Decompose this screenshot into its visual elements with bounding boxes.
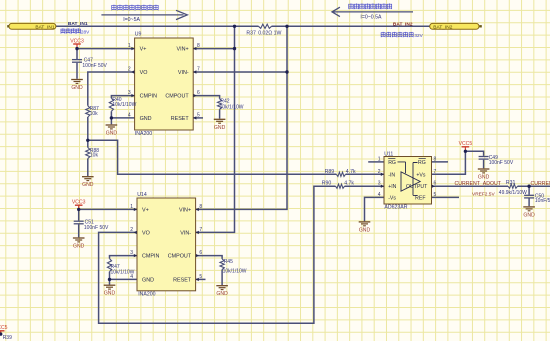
svg-text:VCC3: VCC3 [70, 38, 84, 44]
svg-text:GND: GND [214, 125, 226, 131]
svg-text:BAT_IN2: BAT_IN2 [433, 24, 452, 30]
svg-text:VO: VO [140, 70, 148, 76]
svg-text:-Vs: -Vs [388, 195, 396, 201]
svg-text:CURRENT_ADOUT: CURRENT_ADOUT [455, 181, 502, 187]
svg-text:R37: R37 [246, 30, 256, 36]
svg-text:OUTPUT: OUTPUT [406, 184, 428, 190]
svg-text:10k/1/10W: 10k/1/10W [111, 270, 135, 276]
svg-text:R89: R89 [325, 169, 335, 175]
svg-text:3: 3 [128, 90, 131, 96]
svg-text:RG: RG [418, 160, 426, 166]
svg-text:10k/1/10W: 10k/1/10W [220, 105, 244, 111]
svg-text:GND: GND [73, 244, 85, 250]
svg-text:INA200: INA200 [138, 291, 155, 297]
svg-text:2: 2 [128, 67, 131, 73]
svg-text:CURRENT: CURRENT [531, 181, 550, 187]
svg-text:4.7k: 4.7k [346, 169, 356, 175]
svg-text:7: 7 [434, 169, 437, 175]
svg-text:10nF/50V: 10nF/50V [535, 198, 550, 204]
svg-text:U11: U11 [384, 152, 393, 158]
svg-text:7: 7 [199, 227, 202, 233]
svg-text:VCC5: VCC5 [0, 325, 8, 331]
svg-text:3: 3 [378, 181, 381, 187]
svg-text:-IN: -IN [388, 172, 395, 178]
svg-text:8: 8 [434, 156, 437, 162]
svg-text:VO: VO [142, 230, 150, 236]
svg-text:10k: 10k [90, 153, 99, 159]
svg-text:GND: GND [523, 212, 535, 218]
svg-text:VIN+: VIN+ [177, 47, 189, 53]
svg-text:CMPOUT: CMPOUT [165, 94, 189, 100]
svg-text:5: 5 [197, 113, 200, 119]
svg-text:7: 7 [197, 67, 200, 73]
svg-text:RESET: RESET [171, 116, 190, 122]
svg-text:INA200: INA200 [135, 131, 152, 137]
svg-text:CMPIN: CMPIN [142, 254, 159, 260]
svg-text:28V: 28V [81, 29, 90, 34]
svg-text:R90: R90 [322, 180, 332, 186]
svg-text:GND: GND [71, 85, 83, 91]
svg-text:R39: R39 [3, 335, 12, 341]
svg-text:I=0~0.5A: I=0~0.5A [360, 15, 382, 21]
svg-text:BAT_IN1: BAT_IN1 [68, 21, 88, 27]
svg-text:CMPIN: CMPIN [140, 94, 157, 100]
svg-text:GND: GND [82, 182, 94, 188]
svg-text:GND: GND [216, 291, 228, 297]
svg-text:V+: V+ [140, 47, 147, 53]
svg-text:4: 4 [128, 113, 131, 119]
svg-text:VIN-: VIN- [180, 230, 191, 236]
svg-text:8: 8 [199, 204, 202, 210]
svg-text:I=0~5A: I=0~5A [123, 17, 140, 23]
svg-text:5: 5 [199, 274, 202, 280]
svg-text:1: 1 [128, 43, 131, 49]
svg-text:10k: 10k [90, 111, 99, 117]
svg-text:GND: GND [140, 116, 152, 122]
svg-text:RESET: RESET [173, 277, 192, 283]
svg-text:+IN: +IN [388, 184, 396, 190]
svg-text:U9: U9 [135, 32, 142, 38]
svg-text:2: 2 [130, 227, 133, 233]
svg-text:4: 4 [378, 192, 381, 198]
svg-text:CMPOUT: CMPOUT [168, 254, 192, 260]
svg-text:4.7k: 4.7k [344, 180, 354, 186]
svg-text:2: 2 [378, 169, 381, 175]
svg-text:0.02Ω 1W: 0.02Ω 1W [258, 30, 281, 36]
svg-text:U14: U14 [137, 192, 147, 198]
svg-text:BAT_IN1: BAT_IN1 [35, 24, 54, 30]
svg-text:5: 5 [434, 192, 437, 198]
svg-text:RG: RG [388, 160, 396, 166]
svg-text:100nF 50V: 100nF 50V [84, 225, 109, 231]
svg-text:V+: V+ [142, 207, 149, 213]
svg-text:100nF 50V: 100nF 50V [82, 63, 107, 69]
svg-text:VIN+: VIN+ [179, 207, 191, 213]
svg-text:GND: GND [106, 131, 118, 137]
svg-text:R31: R31 [506, 180, 516, 186]
svg-text:AD623AR: AD623AR [384, 204, 407, 210]
svg-text:VCC5: VCC5 [459, 141, 473, 147]
svg-text:100nF 50V: 100nF 50V [489, 160, 514, 166]
svg-text:10k/1/10W: 10k/1/10W [112, 102, 136, 108]
svg-text:8: 8 [197, 43, 200, 49]
svg-text:10k/1/10W: 10k/1/10W [223, 268, 247, 274]
svg-text:GND: GND [142, 277, 154, 283]
svg-text:VREF2.5V: VREF2.5V [472, 192, 495, 198]
svg-text:+Vs: +Vs [416, 172, 425, 178]
svg-text:R45: R45 [224, 259, 233, 265]
svg-text:GND: GND [478, 175, 490, 181]
svg-text:VIN-: VIN- [178, 70, 189, 76]
svg-text:32V: 32V [414, 33, 423, 38]
svg-text:6: 6 [197, 90, 200, 96]
svg-text:GND: GND [359, 227, 371, 233]
svg-text:3: 3 [130, 250, 133, 256]
svg-text:1: 1 [378, 156, 381, 162]
svg-text:49.9k/1/10W: 49.9k/1/10W [499, 190, 527, 196]
svg-text:1: 1 [130, 204, 133, 210]
svg-text:REF: REF [415, 195, 425, 201]
svg-text:BAT_IN2: BAT_IN2 [393, 22, 413, 28]
svg-text:6: 6 [199, 250, 202, 256]
svg-text:GND: GND [104, 291, 116, 297]
svg-text:VCC3: VCC3 [72, 200, 86, 206]
